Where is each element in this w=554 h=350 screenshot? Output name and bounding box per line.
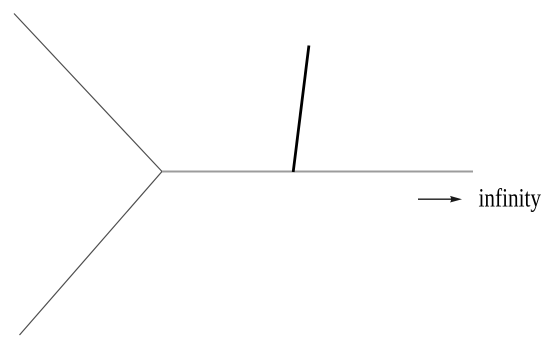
edge lower-left branch xyxy=(20,172,163,336)
arrow to infinity: shaft xyxy=(418,198,453,200)
svg-text:infinity: infinity xyxy=(479,184,542,213)
arrow to infinity: head xyxy=(450,196,462,203)
edge horizontal branch xyxy=(162,171,473,173)
thick marked edge xyxy=(293,46,309,173)
edge upper-left branch xyxy=(14,14,162,172)
